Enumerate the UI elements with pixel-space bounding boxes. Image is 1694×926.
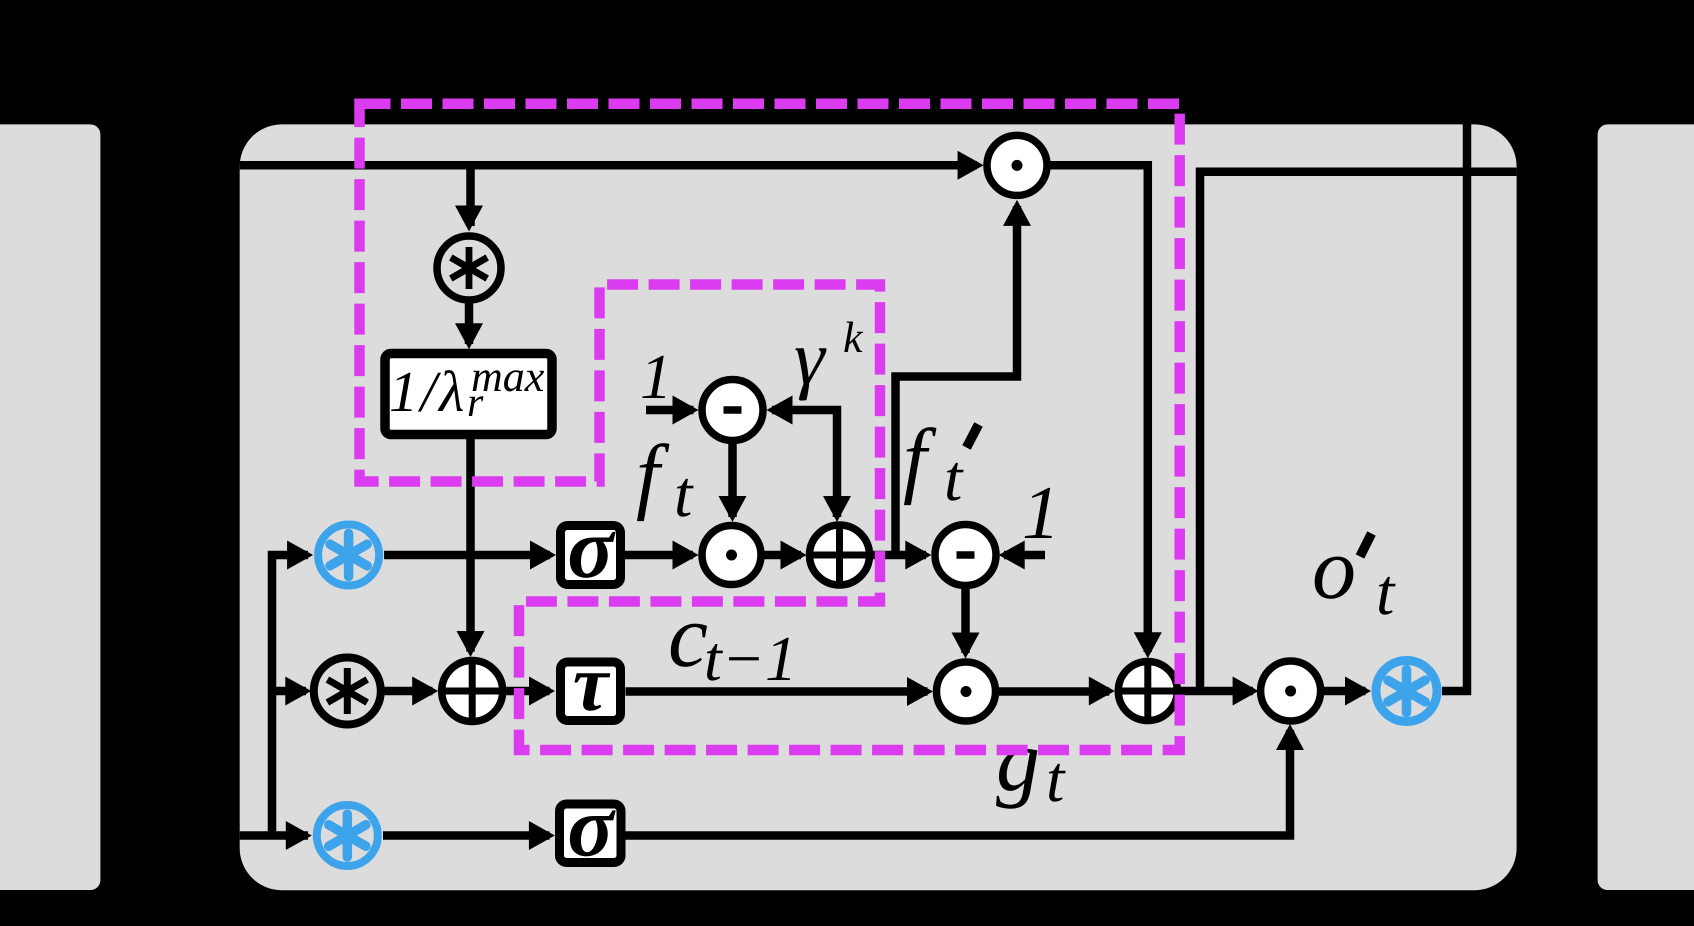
conv f circle (blue asterisk) [318,525,379,586]
arrow into minus1 from gamma [767,396,793,425]
minus circle 1 [702,380,763,441]
magenta dashed highlight outline [360,104,1180,750]
arrow into minus2 [905,541,931,570]
wire one stub right [1004,551,1045,560]
wire minus2 to dot2 [961,589,970,653]
wire dot1 to plus1 [765,551,802,560]
dot circle 2 [937,662,996,721]
lambda max box [385,352,552,435]
wire dot2 to plus3 [999,687,1109,696]
wire conv to lambda box [465,303,474,344]
wire minus1 to dot1 [728,444,737,517]
svg-text:t: t [1376,556,1396,629]
plus circle 3 [1118,662,1177,721]
wire conv f to sigma1 [384,551,550,560]
wire sigma1 to dot1 [624,551,693,560]
svg-text:o: o [1312,521,1356,618]
wire deconv out up h_t [1442,120,1467,691]
svg-text:t: t [674,458,694,531]
wire fprime riser [896,206,1018,555]
arrow into deconv [1345,677,1371,706]
svg-text:k: k [843,313,864,362]
arrow into minus1 from one [673,396,699,425]
dot circle 1 [702,526,761,585]
wire sigma2 to dot3 [626,730,1291,836]
wire bottom input [240,831,308,840]
arrow sigma2 into dot3 [1276,724,1304,750]
wire c_t riser out [1200,172,1517,691]
svg-text:t: t [944,442,964,515]
arrow into conv g [285,677,311,706]
conv circle (black asterisk) top [437,236,501,300]
arrow into top dot [958,151,984,180]
arrow into conv f [287,541,313,570]
wire dot3 to deconv [1323,687,1366,696]
wire gamma arm [772,410,837,517]
arrow into lambda box [455,323,483,349]
wire plus3 to dot3 [1181,687,1254,696]
sigma box 2 [560,779,622,875]
arrow into dot2 [907,677,933,706]
arrow into dot3 [1233,677,1259,706]
minus circle 2 [935,525,996,586]
arrow into sigma2 [529,821,555,850]
arrow gamma into plus1 [823,496,851,522]
wire topdot out and down [1051,165,1148,652]
svg-text:1/λ: 1/λ [389,359,467,424]
arrow into minus2 from one [999,541,1025,570]
deconv circle (blue asterisk) right [1376,661,1437,722]
svg-text:σ: σ [567,779,616,875]
wire conv g to plus2 [383,687,432,696]
arrow into dot1 [673,541,699,570]
arrow into plus3 from above [1134,632,1162,658]
svg-text:g: g [996,713,1040,810]
wire conv branch drop [466,161,475,226]
wire riser to conv g [272,687,306,696]
arrow into plus2 from above [457,631,485,657]
svg-text:t−1: t−1 [704,623,797,694]
arrow fprime into top dot [1003,200,1031,226]
arrow minus2 into dot2 [952,633,980,659]
conv o circle (blue asterisk) bottom [317,805,378,866]
svg-text:σ: σ [567,500,616,596]
sigma box 1 [561,500,621,596]
wire tau to dot2 c_{t-1} [626,687,928,696]
conv g circle (black asterisk) [314,658,381,725]
tau box [561,640,621,728]
wire one stub left [646,406,694,415]
arrow into conv o [286,821,312,850]
arrow into plus3 [1089,677,1115,706]
wire conv o to sigma2 [383,831,550,840]
arrow into sigma1 [530,541,556,570]
arrow into plus1 [781,541,807,570]
svg-text:1: 1 [640,341,672,412]
top dot circle [987,135,1047,195]
wire input riser [272,555,308,836]
svg-text:r: r [467,380,484,426]
svg-text:1: 1 [1022,471,1060,555]
wire c-line top [240,161,977,170]
arrow into tau [529,677,555,706]
wire lambda box to plus2 [466,439,475,652]
plus circle 2 [442,661,503,722]
svg-text:τ: τ [573,640,611,728]
arrow minus1 into dot1 [719,496,747,522]
previous cell body (left) [0,124,100,890]
dot circle 3 [1261,661,1321,721]
svg-text:γ: γ [794,314,827,401]
plus circle 1 [810,525,870,585]
arrow into conv circle [455,206,483,232]
main cell body [240,124,1517,890]
wire plus2 to tau [506,687,549,696]
arrow into plus2 [412,677,438,706]
wire plus1 to minus2 [873,551,927,560]
next cell body (right) [1598,124,1694,890]
